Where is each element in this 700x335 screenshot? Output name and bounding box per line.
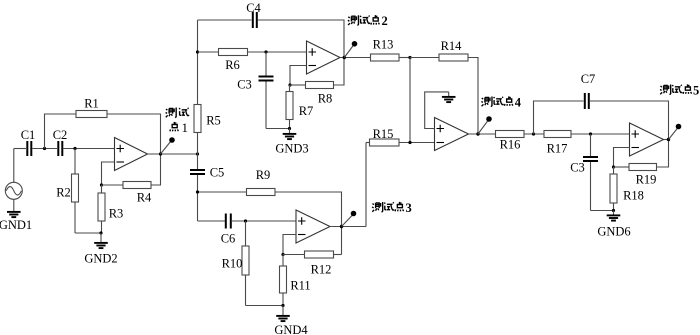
resistor R8 bbox=[290, 58, 344, 106]
node L junction bbox=[244, 219, 247, 222]
capacitor C3 (left) bbox=[237, 52, 273, 129]
op-amp U2 bbox=[307, 41, 341, 74]
wire top rail to C4 bbox=[198, 19, 252, 21]
svg-text:C6: C6 bbox=[221, 232, 236, 246]
svg-text:4: 4 bbox=[515, 95, 522, 109]
wire R6 line bbox=[198, 51, 219, 53]
resistor R5 bbox=[194, 105, 221, 133]
resistor R3 bbox=[98, 185, 123, 233]
wire node I up to C7 bbox=[534, 101, 584, 134]
wire C5 down to C6 line bbox=[197, 175, 199, 221]
svg-text:R15: R15 bbox=[373, 127, 394, 141]
capacitor C5 bbox=[190, 166, 224, 180]
svg-text:R12: R12 bbox=[311, 263, 332, 277]
wire C4 to U2 output bbox=[258, 20, 344, 58]
svg-text:2: 2 bbox=[382, 14, 388, 28]
svg-text:R14: R14 bbox=[441, 39, 463, 53]
node N3 junction bbox=[408, 141, 411, 144]
wire C3 bottom to GND3 bbox=[266, 128, 290, 130]
svg-text:5: 5 bbox=[693, 83, 699, 97]
resistor R11 bbox=[280, 255, 311, 306]
wire C1 to node A bbox=[32, 148, 57, 150]
resistor R15 bbox=[370, 127, 400, 146]
ground GND4 bbox=[274, 304, 308, 335]
wire node H down to - line bbox=[409, 58, 411, 143]
wire R15 to U3 - input bbox=[399, 142, 435, 144]
svg-text:C7: C7 bbox=[581, 72, 596, 86]
resistor R18 bbox=[610, 167, 644, 211]
test point 3 bbox=[340, 201, 412, 228]
capacitor C2 bbox=[53, 128, 68, 156]
node J junction bbox=[589, 132, 592, 135]
test point 1 bbox=[161, 107, 189, 154]
wire U4 - input bbox=[614, 148, 630, 168]
svg-text:R7: R7 bbox=[299, 104, 314, 118]
node E junction bbox=[196, 152, 199, 155]
capacitor C6 bbox=[221, 214, 236, 246]
wire node A up to R1 bbox=[45, 114, 77, 149]
svg-text:1: 1 bbox=[182, 120, 189, 135]
svg-text:GND3: GND3 bbox=[275, 142, 308, 156]
wire feedback vertical to R12 bbox=[341, 227, 343, 255]
op-amp U4 bbox=[630, 123, 664, 156]
wire U5 - input bbox=[283, 235, 296, 255]
wire U2 - input bbox=[290, 66, 307, 86]
wire R5 top to top rail bbox=[197, 20, 199, 105]
test point 2 bbox=[343, 14, 388, 59]
svg-text:R3: R3 bbox=[109, 207, 124, 221]
svg-text:R11: R11 bbox=[290, 279, 310, 293]
svg-text:R10: R10 bbox=[222, 257, 243, 271]
svg-text:R18: R18 bbox=[623, 189, 644, 203]
op-amp U3 bbox=[435, 118, 469, 151]
svg-text:C3: C3 bbox=[570, 161, 585, 175]
resistor R12 bbox=[283, 251, 342, 277]
node I junction bbox=[532, 132, 535, 135]
wire U3 + input to ground bbox=[425, 92, 449, 129]
svg-text:R19: R19 bbox=[636, 173, 657, 187]
node F junction bbox=[264, 50, 267, 53]
wire R9 line bbox=[198, 191, 247, 193]
svg-text:R8: R8 bbox=[318, 92, 333, 106]
capacitor C1 bbox=[21, 128, 36, 156]
resistor R13 bbox=[371, 38, 411, 62]
svg-text:C4: C4 bbox=[246, 1, 261, 15]
svg-text:R2: R2 bbox=[56, 186, 71, 200]
op-amp U5 output wire bbox=[330, 226, 366, 228]
svg-text:R9: R9 bbox=[256, 168, 271, 182]
resistor R2 bbox=[56, 149, 78, 234]
ground (U3 + input) bbox=[442, 92, 456, 102]
svg-text:R6: R6 bbox=[225, 58, 240, 72]
op-amp U5 bbox=[296, 210, 330, 243]
node H junction bbox=[408, 56, 411, 59]
svg-text:R4: R4 bbox=[137, 191, 152, 205]
svg-text:C2: C2 bbox=[53, 128, 68, 142]
wire R2 bottom to GND2 node bbox=[75, 232, 101, 234]
resistor R19 bbox=[614, 140, 669, 187]
wire C6 line bbox=[198, 220, 226, 222]
wire C3 bottom to GND6 bbox=[591, 210, 614, 212]
capacitor C3 (right) bbox=[570, 134, 598, 211]
svg-text:C1: C1 bbox=[21, 128, 36, 142]
test point 5 bbox=[660, 83, 699, 141]
svg-text:R13: R13 bbox=[373, 38, 394, 52]
op-amp U4 output wire bbox=[664, 139, 669, 141]
wire U1 - input bbox=[102, 162, 115, 185]
node M junction bbox=[281, 253, 284, 256]
op-amp U2 output wire bbox=[340, 57, 371, 59]
ground GND3 bbox=[275, 127, 308, 156]
wire C2 to op-amp U1 + input bbox=[63, 148, 114, 150]
svg-text:GND1: GND1 bbox=[0, 218, 32, 232]
resistor R14 bbox=[410, 39, 478, 134]
wire R10 bottom to GND4 node bbox=[246, 305, 284, 307]
svg-text:R5: R5 bbox=[206, 114, 221, 128]
resistor R4 bbox=[102, 154, 161, 205]
AC source V1 bbox=[5, 149, 22, 200]
wire R6 to op-amp U2 + input bbox=[248, 51, 307, 53]
resistor R1 bbox=[76, 97, 107, 118]
ground GND6 bbox=[597, 209, 630, 239]
node D junction bbox=[159, 152, 162, 155]
op-amp U1 bbox=[115, 138, 148, 171]
wire R9 to feedback vertical bbox=[275, 192, 342, 227]
wire C7 to U4 output bbox=[590, 101, 669, 140]
ground GND1 bbox=[0, 199, 32, 232]
node C junction bbox=[100, 183, 103, 186]
svg-text:GND2: GND2 bbox=[84, 252, 117, 266]
svg-text:3: 3 bbox=[406, 201, 412, 215]
node N1 junction bbox=[196, 50, 199, 53]
op-amp U3 output wire bbox=[469, 133, 496, 135]
capacitor C7 bbox=[581, 72, 596, 109]
node K junction bbox=[612, 165, 615, 168]
node G junction bbox=[288, 83, 291, 86]
svg-text:GND6: GND6 bbox=[597, 225, 630, 239]
wire C6 to op-amp U5 + input bbox=[231, 220, 296, 222]
wire to R15 bbox=[366, 142, 370, 144]
resistor R7 bbox=[286, 85, 313, 129]
svg-text:R16: R16 bbox=[500, 138, 521, 152]
wire R1 to output node bbox=[107, 114, 161, 154]
node N2 junction bbox=[196, 190, 199, 193]
test point 4 bbox=[476, 95, 522, 135]
wire backbone up from node E to R5 bbox=[197, 133, 199, 155]
resistor R6 bbox=[219, 49, 248, 73]
wire up to R15 bbox=[365, 143, 367, 227]
node A junction bbox=[43, 147, 46, 150]
ground GND2 bbox=[84, 231, 117, 265]
svg-text:C3: C3 bbox=[237, 78, 252, 92]
svg-text:GND4: GND4 bbox=[274, 323, 308, 335]
wire backbone node E down to C5 bbox=[197, 154, 199, 169]
resistor R10 bbox=[222, 221, 249, 306]
resistor R9 bbox=[247, 168, 276, 196]
svg-text:R17: R17 bbox=[547, 142, 568, 156]
wire R17 to op-amp U4 + input bbox=[571, 133, 630, 135]
svg-text:C5: C5 bbox=[210, 166, 225, 180]
wire input to C1 bbox=[14, 148, 26, 150]
capacitor C4 bbox=[246, 1, 261, 28]
op-amp U1 output wire bbox=[148, 153, 198, 155]
node B junction bbox=[73, 147, 76, 150]
resistor R16 bbox=[496, 131, 545, 152]
svg-text:R1: R1 bbox=[84, 97, 99, 111]
resistor R17 bbox=[544, 131, 571, 156]
